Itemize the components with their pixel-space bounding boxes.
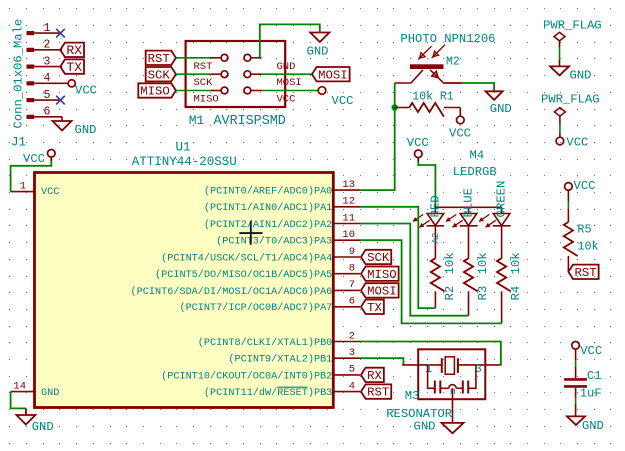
svg-text:MISO: MISO [140, 85, 170, 99]
M2 emitter leg with arrow [430, 70, 443, 82]
svg-text:GND: GND [41, 388, 59, 399]
svg-text:13: 13 [342, 179, 355, 191]
svg-text:SCK: SCK [367, 251, 390, 265]
wire U1 to R2 [360, 207, 435, 308]
U1 pin 4 (PCINT11/dW/RESET)PB3 [334, 391, 360, 393]
M1 left pin RST [211, 57, 221, 59]
crystal inside M3 [441, 358, 443, 373]
wire M1 VCC pin to power symbol [262, 90, 319, 92]
svg-text:10: 10 [342, 229, 355, 241]
connector J1 pin 3 [27, 64, 35, 68]
U1 pin 14 GND [11, 391, 35, 393]
power symbol VCC feeding U1 pin 1 [48, 150, 56, 158]
svg-text:PHOTO NPN1206: PHOTO NPN1206 [400, 32, 495, 46]
svg-text:GND: GND [570, 69, 592, 83]
hierarchical label TX on J1 pin 3 [60, 59, 84, 73]
resistor R2 [431, 258, 445, 291]
capacitor C1 [564, 378, 587, 381]
svg-text:(PCINT0/AREF/ADC0)PA0: (PCINT0/AREF/ADC0)PA0 [204, 186, 332, 198]
svg-text:(PCINT7/ICP/OC0B/ADC7)PA7: (PCINT7/ICP/OC0B/ADC7)PA7 [179, 302, 332, 314]
svg-text:PWR_FLAG: PWR_FLAG [543, 18, 602, 32]
svg-text:SCK: SCK [148, 68, 171, 82]
svg-text:C1: C1 [587, 369, 602, 383]
U1 pin 2 (PCINT8/CLKI/XTAL1)PB0 [334, 341, 360, 343]
svg-text:RST: RST [575, 266, 597, 280]
light arrows at LED GREEN [479, 215, 489, 222]
U1 pin 10 (PCINT3/T0/ADC3)PA3 [334, 239, 360, 241]
resistor R1 [395, 107, 410, 109]
ground symbol under PWR_FLAG [550, 66, 569, 75]
ground symbol above right of M1 [310, 33, 329, 43]
M1 right pin GND [251, 57, 262, 59]
svg-text:6: 6 [349, 296, 355, 308]
svg-text:14: 14 [13, 380, 26, 392]
connector J1 pin 4 [27, 81, 35, 85]
svg-text:(PCINT3/T0/ADC3)PA3: (PCINT3/T0/ADC3)PA3 [216, 236, 332, 248]
svg-text:TX: TX [367, 301, 382, 315]
wire VCC to C1 [575, 349, 577, 361]
svg-text:Conn_01x06_Male: Conn_01x06_Male [12, 19, 26, 129]
connector J1 pin 6 [27, 115, 35, 119]
hierarchical label MOSI at M1 [312, 67, 350, 81]
hierarchical label SCK at U1 pin 9 [361, 250, 391, 264]
IC U1 ATTINY44-20SSU body [35, 173, 334, 408]
svg-text:U1: U1 [175, 141, 190, 155]
svg-text:10k: 10k [476, 252, 490, 274]
wire VCC to R5 [567, 190, 569, 201]
svg-text:PWR_FLAG: PWR_FLAG [541, 93, 600, 107]
svg-text:VCC: VCC [75, 84, 97, 98]
svg-text:M2: M2 [446, 56, 460, 69]
resonator M3 body [418, 349, 485, 399]
svg-text:R4: R4 [509, 286, 523, 301]
svg-text:BLUE: BLUE [462, 188, 476, 218]
M1 left pin SCK [211, 73, 221, 75]
U1 pin 12 (PCINT1/AIN0/ADC1)PA1 [334, 206, 360, 208]
svg-text:RX: RX [367, 369, 382, 383]
hierarchical label SCK at M1 [146, 67, 176, 81]
svg-text:(PCINT8/CLKI/XTAL1)PB0: (PCINT8/CLKI/XTAL1)PB0 [198, 337, 333, 349]
power symbol VCC on J1 pin 4 [68, 80, 75, 87]
U1 pin 13 (PCINT0/AREF/ADC0)PA0 [334, 189, 360, 191]
svg-text:10k R1: 10k R1 [412, 91, 454, 104]
wire PWR_FLAG to GND [559, 41, 561, 48]
svg-text:TX: TX [66, 60, 82, 75]
svg-text:(PCINT1/AIN0/ADC1)PA1: (PCINT1/AIN0/ADC1)PA1 [204, 202, 332, 214]
svg-text:5: 5 [349, 364, 355, 376]
hierarchical label RX on J1 pin 2 [60, 43, 84, 57]
wire RST label to M1 [176, 57, 211, 59]
svg-text:2: 2 [44, 39, 51, 52]
wire U1 pin 3 to M3 pin 1 [360, 358, 403, 365]
connector J1 pin 1 [27, 31, 35, 35]
power symbol VCC at R1 [457, 116, 465, 124]
editor crosshair cursor [239, 221, 262, 245]
svg-text:J1: J1 [11, 135, 26, 149]
resistor R5 [564, 222, 578, 256]
svg-text:4: 4 [349, 380, 355, 392]
wire M3 center to ground [452, 388, 454, 423]
svg-text:3: 3 [349, 347, 355, 359]
svg-text:(PCINT4/USCK/SCL/T1/ADC4)PA4: (PCINT4/USCK/SCL/T1/ADC4)PA4 [161, 252, 332, 264]
svg-text:3: 3 [44, 55, 51, 68]
M3 internal capacitor left [428, 365, 435, 388]
svg-text:R3: R3 [476, 286, 490, 301]
svg-text:VCC: VCC [407, 136, 429, 150]
svg-text:1: 1 [425, 362, 432, 376]
wire M2 emitter to ground [462, 83, 495, 91]
svg-text:GND: GND [32, 420, 54, 434]
programming header M1 AVRISPSMD body [186, 41, 286, 107]
svg-text:(PCINT6/SDA/DI/MOSI/OC1A/ADC6): (PCINT6/SDA/DI/MOSI/OC1A/ADC6)PA6 [131, 286, 333, 298]
svg-text:RED: RED [428, 195, 442, 217]
svg-text:A2: A2 [431, 233, 441, 244]
ground symbol at J1 pin 6 [53, 121, 72, 131]
ground symbol below M2 emitter [486, 91, 503, 100]
svg-text:GND: GND [75, 123, 97, 137]
M1 right pin VCC [251, 90, 262, 92]
svg-text:R2: R2 [443, 286, 457, 301]
connector J1 pin 5 [27, 98, 35, 102]
svg-text:1: 1 [44, 22, 51, 35]
resistor R4 [497, 258, 511, 291]
hierarchical label RX at U1 pin 5 [361, 368, 384, 382]
svg-text:6: 6 [44, 106, 51, 119]
svg-text:MOSI: MOSI [367, 284, 397, 298]
hierarchical label MISO at M1 [138, 83, 176, 97]
light arrows at LED BLUE [446, 215, 456, 222]
wire net VCC-sense vertical from M2 collector to U1 pin 13 [360, 83, 395, 190]
svg-text:8: 8 [349, 263, 355, 275]
M3 internal capacitor right [468, 365, 476, 388]
svg-text:VCC: VCC [566, 135, 588, 149]
svg-text:M3: M3 [405, 389, 420, 403]
svg-text:(PCINT10/CKOUT/OC0A/INT0)PB2: (PCINT10/CKOUT/OC0A/INT0)PB2 [161, 370, 332, 382]
svg-text:1: 1 [20, 180, 26, 192]
U1 pin 1 VCC [11, 191, 35, 193]
svg-text:SCK: SCK [194, 77, 214, 89]
U1 pin 11 (PCINT2/AIN1/ADC2)PA2 [334, 223, 360, 225]
U1 pin 7 (PCINT6/SDA/DI/MOSI/OC1A/ADC6)PA6 [334, 289, 360, 291]
ground symbol below U1 [16, 415, 35, 425]
svg-text:M4: M4 [470, 149, 485, 163]
no-connect X on J1 pin 1 [56, 29, 65, 38]
svg-text:MOSI: MOSI [277, 77, 302, 89]
hierarchical label MOSI at U1 pin 7 [361, 283, 399, 297]
light arrow 2 into M2 [432, 45, 445, 58]
svg-text:MOSI: MOSI [318, 68, 348, 82]
wire SCK label to M1 [176, 73, 211, 75]
hierarchical label RST at M1 [146, 51, 176, 65]
M3 center tap wire [440, 387, 449, 389]
svg-text:GND: GND [414, 419, 436, 433]
wire U1 to R3 [360, 224, 469, 316]
wire MISO label to M1 [176, 90, 211, 92]
svg-text:R5: R5 [577, 223, 591, 237]
wire C1 to ground [575, 388, 577, 399]
svg-text:12: 12 [342, 196, 355, 208]
svg-text:ATTINY44-20SSU: ATTINY44-20SSU [132, 155, 237, 169]
svg-text:MISO: MISO [194, 94, 219, 106]
connector J1 pin 2 [27, 48, 35, 52]
svg-text:VCC: VCC [449, 127, 471, 141]
M1 right pin MOSI [251, 73, 262, 75]
svg-text:10k: 10k [509, 252, 523, 274]
svg-text:AVRISPSMD: AVRISPSMD [214, 114, 286, 129]
wire M1 GND pin to ground symbol [260, 24, 320, 57]
U1 pin 6 (PCINT7/ICP/OC0B/ADC7)PA7 [334, 306, 360, 308]
power symbol VCC above R5 [565, 183, 573, 191]
svg-text:RX: RX [66, 43, 82, 58]
svg-text:VCC: VCC [574, 179, 596, 193]
wire U1 to R4 [360, 240, 502, 323]
svg-text:VCC: VCC [277, 94, 296, 106]
LED GREEN of M4 [501, 207, 503, 213]
hierarchical label RST at U1 pin 4 [361, 384, 391, 398]
svg-text:GND: GND [307, 45, 329, 59]
svg-text:7: 7 [349, 279, 355, 291]
svg-text:10k: 10k [577, 240, 598, 254]
svg-text:GND: GND [582, 419, 604, 433]
svg-text:VCC: VCC [23, 152, 45, 166]
wire U1 pin 14 to ground [11, 392, 26, 409]
svg-text:(PCINT2/AIN1/ADC2)PA2: (PCINT2/AIN1/ADC2)PA2 [204, 219, 332, 231]
ground symbol below M3 [442, 423, 464, 433]
wire M1 MOSI pin to label [262, 73, 313, 75]
power symbol VCC under PWR_FLAG [556, 137, 564, 145]
svg-text:10k: 10k [443, 252, 457, 274]
LED RED of M4 [434, 207, 436, 213]
ground symbol below C1 [567, 416, 585, 425]
power symbol VCC above C1 [572, 342, 580, 350]
svg-text:2: 2 [349, 330, 355, 342]
svg-text:(PCINT11/dW/RESET)PB3: (PCINT11/dW/RESET)PB3 [204, 387, 332, 399]
svg-text:VCC: VCC [580, 344, 602, 358]
svg-text:9: 9 [349, 246, 355, 258]
M1 left pin MISO [211, 90, 221, 92]
light arrows at LED RED [413, 215, 423, 222]
U1 pin 5 (PCINT10/CKOUT/OC0A/INT0)PB2 [334, 374, 360, 376]
svg-text:1uF: 1uF [580, 387, 602, 401]
LED common anode bus [435, 206, 501, 208]
M3 pin 3 [458, 364, 500, 366]
svg-text:VCC: VCC [332, 94, 354, 108]
wire U1 pin 2 to M3 pin 3 [360, 342, 501, 365]
hierarchical label MISO at U1 pin 8 [361, 267, 399, 281]
svg-text:RST: RST [194, 61, 213, 73]
hierarchical label TX at U1 pin 6 [361, 300, 384, 314]
svg-text:MISO: MISO [367, 268, 397, 282]
M2 collector leg [395, 70, 423, 83]
svg-text:GREEN: GREEN [495, 181, 509, 218]
svg-text:VCC: VCC [41, 187, 59, 198]
power symbol VCC feeding LEDs [415, 150, 423, 158]
svg-text:11: 11 [342, 212, 355, 224]
no-connect X on J1 pin 5 [56, 96, 65, 105]
svg-text:(PCINT5/DO/MISO/OC1B/ADC5)PA5: (PCINT5/DO/MISO/OC1B/ADC5)PA5 [155, 269, 332, 281]
wire VCC to U1 pin 1 [50, 157, 52, 161]
hierarchical label RST below R5 [568, 265, 598, 279]
svg-text:GND: GND [490, 102, 512, 116]
svg-text:RST: RST [367, 386, 389, 400]
U1 pin 3 (PCINT9/XTAL2)PB1 [334, 357, 360, 359]
power symbol VCC right of M1 [318, 87, 326, 95]
wire VCC to LED common anode [417, 158, 419, 162]
wire J1 pin 6 to ground [61, 117, 63, 121]
svg-text:4: 4 [44, 72, 51, 85]
svg-text:GND: GND [277, 61, 296, 73]
U1 pin 9 (PCINT4/USCK/SCL/T1/ADC4)PA4 [334, 256, 360, 258]
light arrow 1 into M2 [418, 46, 431, 59]
phototransistor M2 base bar [410, 64, 444, 69]
wire PWR_FLAG to VCC [559, 116, 561, 124]
svg-text:LEDRGB: LEDRGB [453, 165, 497, 179]
resistor R3 [464, 258, 478, 291]
junction at R1 left [392, 104, 398, 110]
M3 pin 1 [402, 364, 442, 366]
svg-text:RST: RST [148, 52, 170, 66]
svg-text:(PCINT9/XTAL2)PB1: (PCINT9/XTAL2)PB1 [228, 354, 332, 366]
U1 pin 8 (PCINT5/DO/MISO/OC1B/ADC5)PA5 [334, 273, 360, 275]
svg-text:M1: M1 [189, 113, 205, 128]
LED BLUE of M4 [468, 207, 470, 213]
svg-text:5: 5 [44, 89, 51, 102]
